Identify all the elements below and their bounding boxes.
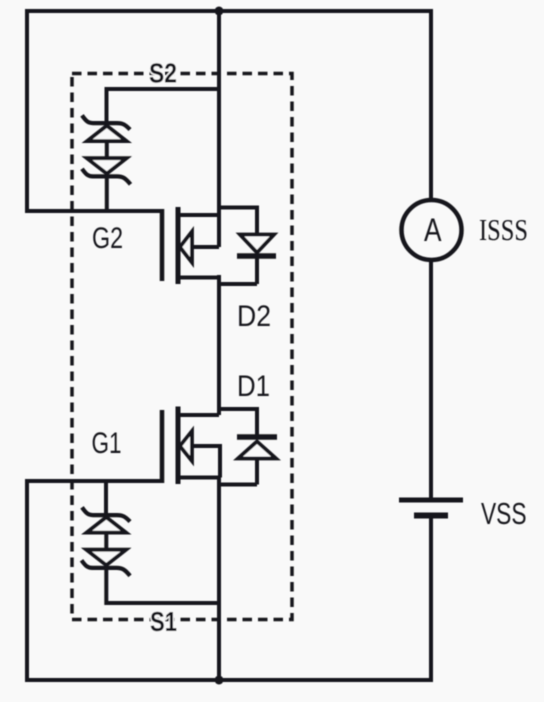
svg-text:S2: S2 xyxy=(149,58,177,89)
body stub xyxy=(191,446,220,478)
arrow (into channel) xyxy=(180,232,192,263)
diode branch top xyxy=(219,407,257,411)
body stub xyxy=(191,245,219,249)
svg-text:G2: G2 xyxy=(92,222,123,255)
diode top lead xyxy=(255,206,259,236)
transistor Q2 (upper MOSFET) xyxy=(162,207,219,284)
wire right edge upper xyxy=(429,9,433,200)
transistor Q1 (lower MOSFET) xyxy=(162,407,220,485)
wire left edge upper xyxy=(25,9,29,211)
dashed isolation box xyxy=(72,74,292,620)
zener diode triangle up xyxy=(87,517,126,532)
diode cathode bar xyxy=(237,434,277,440)
wire zener link xyxy=(105,141,109,158)
svg-text:ISSS: ISSS xyxy=(479,212,528,247)
zener cathode squiggle lower xyxy=(82,169,131,185)
node junction dot top xyxy=(215,7,224,16)
battery VSS short plate xyxy=(414,513,448,519)
body diode D1 of Q1 xyxy=(219,407,277,485)
svg-text:S1: S1 xyxy=(150,606,177,637)
zener diode triangle down xyxy=(86,550,126,565)
node junction dot bottom xyxy=(215,676,224,685)
arrow (into channel) xyxy=(180,431,192,461)
drain stub xyxy=(178,213,219,217)
body diode D2 of Q2 xyxy=(219,206,276,285)
TVS diode pair Z2 (gate-source clamp, upper) xyxy=(82,115,131,211)
diode cathode bar xyxy=(237,253,276,259)
diode triangle (pointing down) xyxy=(240,235,274,253)
svg-text:VSS: VSS xyxy=(481,496,527,531)
wire right edge lower xyxy=(429,518,433,682)
wire main vertical bottom xyxy=(217,478,221,681)
wire zener to gate xyxy=(105,176,109,211)
svg-text:D2: D2 xyxy=(237,300,271,333)
diode bottom lead xyxy=(255,459,259,485)
wire right edge middle xyxy=(429,260,433,498)
drain stub xyxy=(178,413,219,417)
diode triangle (pointing up) xyxy=(238,442,276,459)
jog wire to diode xyxy=(219,483,257,487)
svg-text:D1: D1 xyxy=(237,370,270,403)
wire main vertical top xyxy=(217,11,221,247)
zener cathode squiggle lower xyxy=(82,560,131,576)
diode branch top xyxy=(219,206,257,210)
wire gate to zener xyxy=(104,481,108,518)
jog wire to diode xyxy=(219,275,257,284)
gate bar G2 xyxy=(160,209,165,281)
wire G1 gate feed xyxy=(25,479,162,483)
diode top lead xyxy=(255,407,259,436)
zener diode triangle down xyxy=(87,158,127,173)
battery VSS long plate xyxy=(399,498,463,503)
channel bar xyxy=(176,407,181,485)
ammeter A1 circle xyxy=(402,200,462,260)
gate bar G1 xyxy=(160,410,165,483)
zener diode triangle up xyxy=(87,126,126,141)
wire bottom rail xyxy=(27,680,431,682)
zener cathode squiggle upper xyxy=(82,115,130,129)
wire mid vertical between MOSFETs xyxy=(217,282,221,415)
wire zener to S1 xyxy=(106,568,219,604)
svg-text:G1: G1 xyxy=(92,427,122,460)
source stub xyxy=(178,476,219,480)
diode bottom lead xyxy=(255,256,259,284)
channel bar xyxy=(176,207,181,284)
wire G2 gate feed xyxy=(25,209,162,213)
wire zener link xyxy=(104,533,108,550)
source stub xyxy=(178,276,219,280)
svg-text:A: A xyxy=(424,212,442,248)
TVS diode pair Z1 (gate-source clamp, lower) xyxy=(82,481,220,603)
wire S2 link xyxy=(107,89,220,126)
wire top rail xyxy=(27,9,431,13)
wire left edge lower xyxy=(25,481,29,680)
zener cathode squiggle upper xyxy=(82,507,130,521)
